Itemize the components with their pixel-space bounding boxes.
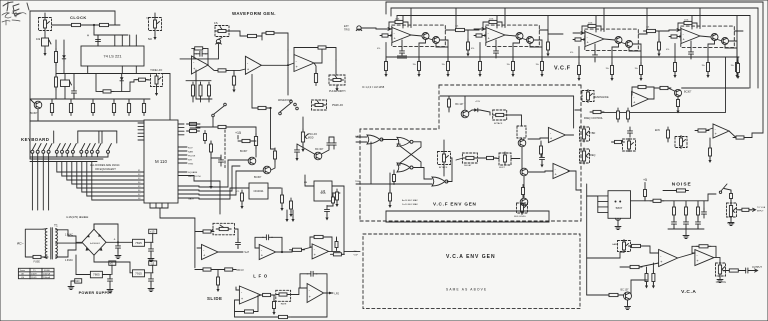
IC REG1 7815 [133,239,145,246]
wire [42,157,44,210]
key switch S12 [96,144,101,158]
wire [44,31,46,39]
resistor R33 [392,20,406,23]
wire [429,39,434,41]
switch waveform select [278,99,298,115]
potentiometer pw mod [301,129,308,145]
wire [143,99,145,101]
wire [440,40,448,47]
wire [401,55,403,58]
wire [310,237,314,247]
resistor R62 [617,108,620,122]
wire drop stage4 [736,16,738,32]
wire [271,160,275,170]
svg-text:4-16(170) ⊕⊖⊕⊖: 4-16(170) ⊕⊖⊕⊖ [66,215,89,219]
trimmer tune [39,18,52,31]
wire [57,162,144,173]
bridge rectifier BR1 [82,229,106,255]
wire [199,188,240,199]
wire [479,43,481,62]
wire bus [30,98,150,100]
svg-text:100mA: 100mA [43,272,50,275]
wire [235,311,245,313]
capacitor C osc [196,51,206,56]
wire [322,148,330,154]
net label GATE [188,198,194,201]
wire [82,162,144,193]
NOR gate G1 [367,135,383,144]
wire [291,250,294,252]
ground [115,253,121,259]
wire [390,8,392,16]
wire [150,283,152,287]
wire [115,24,120,26]
wire [729,131,736,138]
wire [92,162,144,201]
wire [192,96,194,102]
wire [725,45,737,63]
wire [138,125,144,127]
capacitor C out- [149,275,154,285]
wire [464,103,466,110]
wire [62,162,144,177]
wire [255,127,257,136]
resistor R45 [611,63,614,78]
svg-text:SQUARE: SQUARE [188,171,198,174]
wire [94,34,128,36]
wire [344,250,356,252]
value 10k [36,37,41,41]
resistor R54 [644,29,659,32]
resistor R59 [657,86,671,89]
ground arrow [735,72,738,78]
wire [734,30,743,32]
svg-text:15k: 15k [635,68,638,70]
label decay [464,164,472,167]
capacitor C3 [593,51,598,61]
label IC1 [236,191,240,193]
capacitor C1 [400,47,405,57]
ground arrow [240,203,243,209]
svg-text:BC 107: BC 107 [455,103,464,106]
key switch S1 [31,144,36,158]
op-amp U15 lfo [307,284,324,303]
wire [668,228,704,230]
wire [93,224,95,229]
wire [240,187,249,189]
wire [385,43,387,62]
wire [178,190,199,191]
wire [178,123,184,125]
wire [691,16,693,30]
svg-text:FUSE: FUSE [34,261,41,264]
svg-text:5k6: 5k6 [148,38,153,41]
transistor U7Ab [433,37,440,44]
resistor R73 [200,230,214,233]
ground arrow [232,87,235,93]
wire bus top1 [386,1,763,3]
wire [77,131,79,143]
wire [237,247,239,248]
label +15V [475,101,481,103]
svg-text:V.C.A ENV GEN: V.C.A ENV GEN [446,254,496,260]
svg-text:100k: 100k [489,19,493,21]
wire [274,33,288,50]
wire [233,70,235,76]
IC U6 [314,181,332,201]
label tone lfo2 [150,69,162,72]
wire [63,40,65,53]
value 47k [214,22,219,25]
wire [154,13,156,18]
resistor R44 [578,63,581,78]
resistor R23 [187,122,200,125]
value 47k [377,48,380,50]
svg-text:GATE: GATE [188,198,194,201]
wire [467,30,469,42]
resistor R34 [385,59,388,74]
resistor R12 [245,34,260,37]
capacitor C7 [696,218,701,228]
ground arrow [540,162,543,168]
svg-text:ALL DIODES ARE 1N914: ALL DIODES ARE 1N914 [90,163,120,167]
wire [667,139,669,142]
label BC307 Q3 [254,176,262,179]
wire [63,61,65,74]
wire bus top2 [391,7,758,9]
wire [128,99,130,101]
wire [287,67,289,95]
wire [547,34,549,42]
wire [410,8,412,28]
junction [269,107,271,109]
value 15k [731,65,734,67]
wire [51,99,53,101]
wire [197,247,202,249]
trimmer fine tune [42,38,52,52]
svg-text:-15: -15 [150,261,154,265]
resistor R67 [709,145,712,159]
trimmer pulse width [329,75,345,85]
transistor U7Aa [422,33,429,40]
note D max [402,203,418,206]
svg-text:AC~: AC~ [17,242,24,246]
svg-text:100k: 100k [684,20,688,22]
wire [454,29,456,31]
ground arrow [540,71,543,77]
op-amp U8B [681,29,700,44]
resistor sustain [504,152,507,165]
wire [468,29,480,30]
wire [419,40,426,62]
wire drop interstage3 [646,8,648,31]
resistor R14 [215,69,229,72]
label sus level [514,216,527,218]
ground arrow [325,215,328,221]
wire [685,229,687,233]
power +5 [643,178,647,186]
wire [587,252,620,258]
wire vcf out down [601,57,726,112]
svg-text:KOV: KOV [188,147,193,149]
label attack2 [439,166,448,169]
net label trig [355,181,361,183]
junction [93,24,95,26]
svg-text:+15: +15 [235,131,241,135]
svg-text:BC307: BC307 [684,91,692,94]
wire [178,134,184,136]
wire [208,96,210,102]
wire sh to kbcv [343,186,345,251]
label freq control [584,117,604,120]
wire noise pin bus [597,196,599,213]
resistor R70 [448,96,451,110]
resistor R6 [69,101,72,116]
net label KOV [188,147,193,149]
wire [152,234,154,243]
wire [332,185,344,187]
wire [271,294,275,296]
resistor R15 [232,73,235,88]
wire [235,229,239,240]
ground [728,220,734,226]
wire [178,130,184,132]
capacitor C q4b [332,139,336,149]
wire [106,241,133,243]
value 15k [606,68,609,70]
wire [71,281,75,284]
label kb cv [237,269,245,272]
ground arrow [645,283,648,289]
wire right border outer [752,2,763,138]
capacitor C2 [494,47,499,57]
wire [199,171,263,195]
wire [291,293,327,317]
resistor R57 [737,61,740,76]
wire [703,201,705,210]
wire [68,242,76,250]
wire [396,16,398,23]
dashed box freq pot [580,149,590,163]
value 47k [666,49,669,51]
potentiometer freq [582,148,589,164]
resistor R16 [192,82,195,99]
svg-text:7915: 7915 [135,271,142,275]
wire [738,270,742,272]
svg-text:WAVEFORM GEN.: WAVEFORM GEN. [232,11,276,16]
value 15k [442,64,445,66]
wire [238,251,243,253]
pin label F1 [138,170,141,172]
wire [196,70,212,99]
ground arrow [301,146,304,152]
wire [288,63,294,65]
symbol nabla [146,16,149,20]
svg-text:KEYBOARD: KEYBOARD [21,137,49,142]
resistor R29 [281,192,284,206]
connector trig jack [356,26,362,31]
wire [708,194,716,201]
wire [93,33,95,35]
svg-text:47k: 47k [471,48,474,50]
dashed box attack cv pot [517,126,526,138]
svg-text:TO VCA: TO VCA [757,206,766,209]
svg-text:BC 307: BC 307 [315,148,324,151]
junction [117,241,119,243]
wire [138,136,144,138]
resistor rate [276,293,290,296]
transistor Q vca [624,292,632,300]
resistor R50 [707,60,710,75]
wire [257,35,262,37]
resistor R71 [540,143,543,157]
value 47k [570,52,573,54]
transistor U8Ba [711,34,718,41]
wire [341,251,344,254]
svg-text:ATTACK: ATTACK [494,122,503,125]
label PWM LFO [332,104,343,107]
svg-text:A=10 SEC MAX: A=10 SEC MAX [402,199,418,202]
resistor R61 [590,110,604,113]
wire [323,237,332,251]
svg-text:555: 555 [320,191,325,195]
wire left border [29,99,31,159]
wire [92,99,94,101]
trimmer resonance [582,90,594,103]
wire [178,198,199,199]
wire [53,131,55,143]
wire [729,41,737,48]
wire under-ic rail [56,73,151,75]
key switch S9 [80,144,85,158]
svg-text:M 110: M 110 [155,159,167,164]
wire [654,87,660,89]
wire [200,96,202,102]
wire [261,50,288,65]
wire [674,44,676,63]
dashed pair box U7A [392,25,446,46]
svg-text:BC307: BC307 [254,176,262,179]
wire [73,74,75,90]
ground arrow [289,211,292,217]
junction [390,34,392,36]
wire [582,26,588,33]
wire [210,141,212,144]
wire [226,126,256,128]
wire [505,35,516,36]
wire [690,41,692,50]
wire [708,246,716,257]
wire [718,40,723,42]
svg-text:Trans: Trans [20,269,26,272]
wire [199,160,248,187]
svg-text:KB CV: KB CV [237,269,245,272]
wire [235,300,279,317]
svg-text:BC307: BC307 [240,150,248,153]
wire env rail [440,95,574,97]
IC REG3 7805 [90,271,102,278]
wire [305,175,314,186]
wire [150,242,152,245]
wire [534,40,542,47]
input arrow [380,28,392,31]
resistor R77 [290,248,305,251]
svg-text:10k: 10k [646,27,649,29]
label 19vac bottom [65,259,73,262]
transistor Q env2 [520,168,528,176]
svg-text:15k: 15k [702,65,705,67]
wire [580,136,582,138]
wire [87,66,89,74]
label BC307 [30,112,38,115]
wire [521,138,523,139]
label resonance [594,96,610,99]
wire [30,99,34,103]
wire [336,237,338,242]
label s+h [244,251,249,254]
wire [724,189,731,194]
wire [118,262,133,273]
ground arrow [280,205,283,211]
ground [148,286,154,292]
net label gate [355,135,361,138]
ground arrow [384,71,387,77]
wire [539,29,548,31]
wire [443,165,445,176]
svg-text:15k: 15k [606,68,609,70]
wire [149,203,151,208]
wire [632,87,638,95]
note equivalent [95,167,116,171]
wire [594,44,596,53]
ground arrow [610,75,613,81]
transformer T1 [45,224,58,260]
wire [211,229,213,232]
wire [178,150,187,152]
net label SQUARE [188,171,198,174]
svg-text:D=10 SEC MAX: D=10 SEC MAX [402,203,418,206]
wire [195,75,197,81]
wire [445,29,454,31]
svg-text:15k: 15k [507,64,510,66]
svg-text:TRIG: TRIG [188,163,194,165]
wire [218,251,238,253]
wire [447,158,452,182]
wire [178,186,199,187]
wire [97,35,99,46]
wire [603,8,605,32]
wire [151,73,157,75]
resistor R4 [55,74,58,90]
note lm1458 [362,85,385,89]
power +15 [235,131,241,139]
ground arrow [546,51,549,57]
resistor R58 [635,85,649,88]
ground arrow [511,71,514,77]
wire [596,26,601,31]
svg-text:MOD: MOD [308,136,314,139]
svg-text:GN: GN [76,279,80,283]
wire [226,69,245,70]
resistor R24 [187,129,200,132]
resistor R22 [215,125,229,128]
resistor R64 [612,140,625,143]
wire [194,53,197,55]
wire [252,74,258,108]
wire [443,140,445,151]
pin label F4 [138,182,141,184]
wire [673,201,675,207]
